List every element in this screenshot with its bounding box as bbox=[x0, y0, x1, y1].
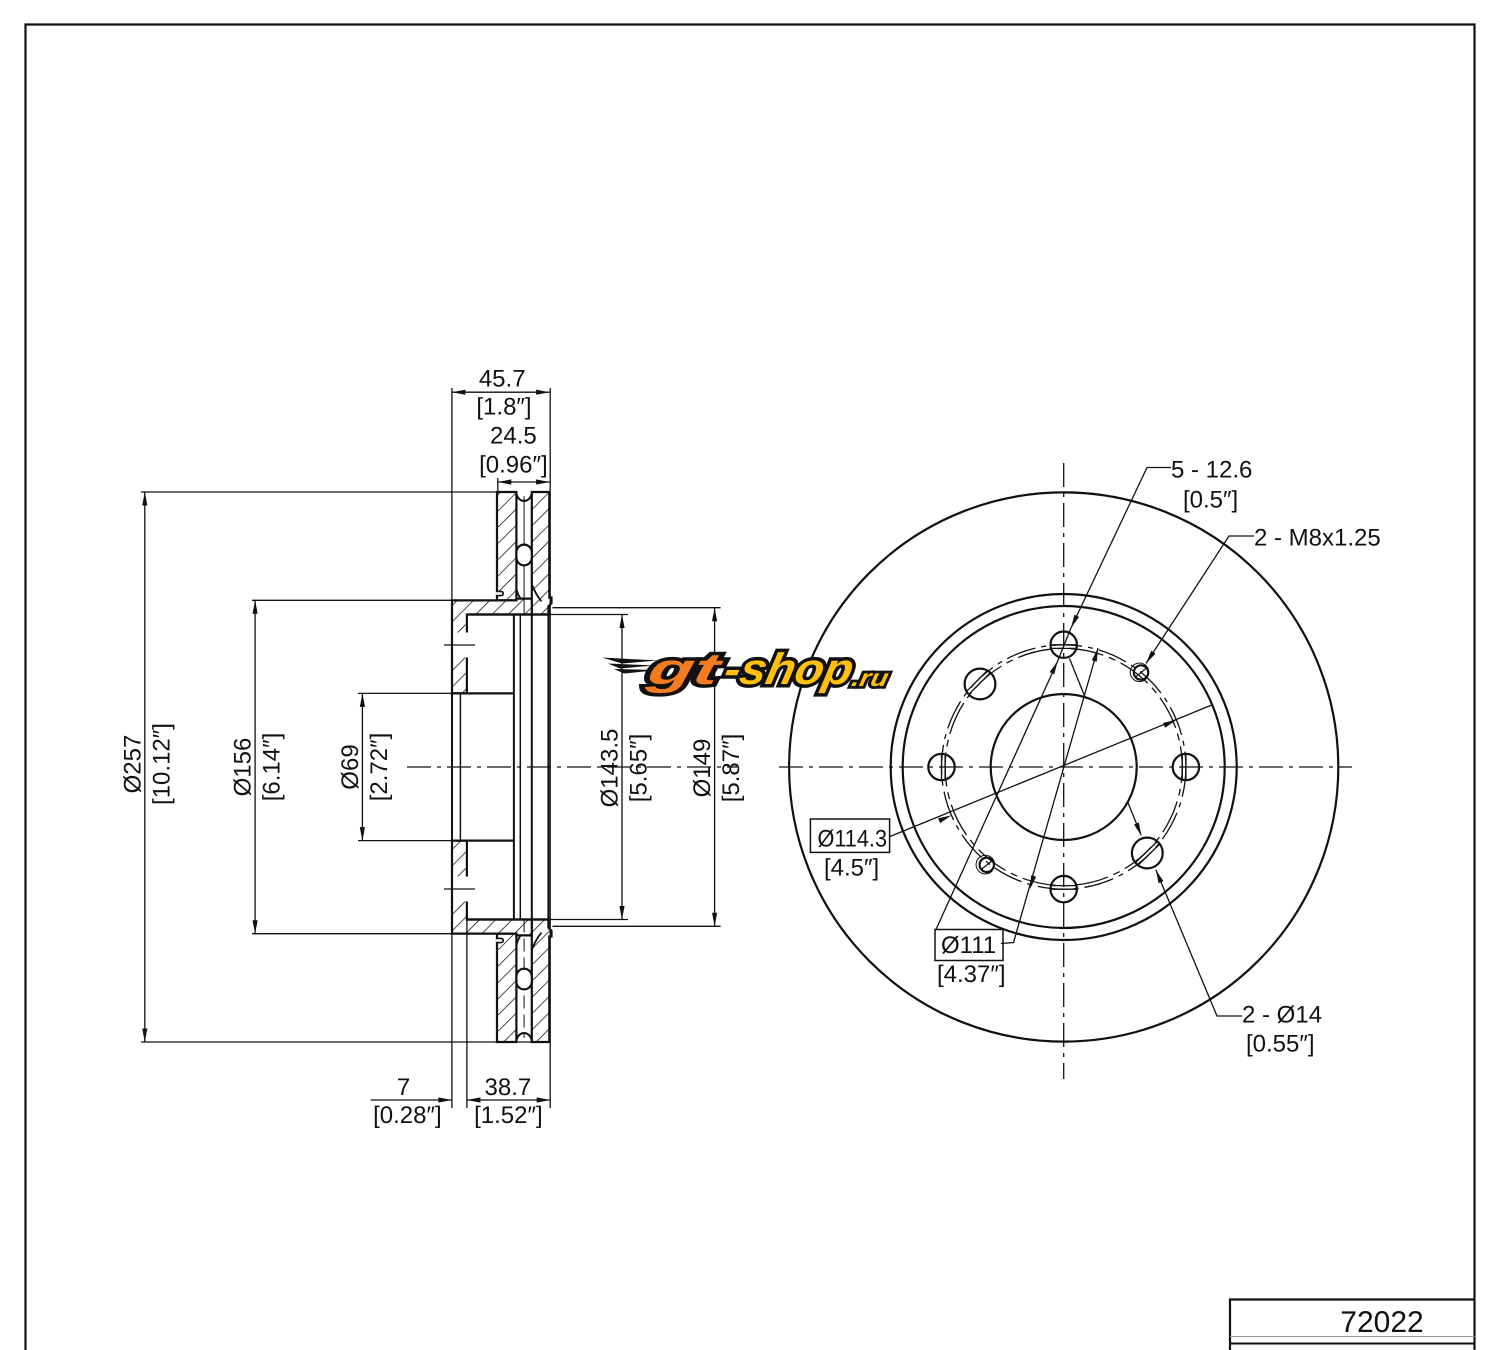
bolt circle chords in bottom lug hole bbox=[1052, 885, 1076, 887]
leader line through top hole bbox=[1058, 628, 1071, 661]
svg-text:[0.5″]: [0.5″] bbox=[1183, 487, 1238, 514]
svg-text:[10.12″]: [10.12″] bbox=[148, 723, 175, 805]
front view centerline horizontal bbox=[779, 766, 1352, 768]
line top hole to D14 hole bbox=[1070, 659, 1086, 698]
svg-text:[1.52″]: [1.52″] bbox=[474, 1102, 543, 1129]
hat inside face line bbox=[513, 615, 515, 920]
dim D114.3 diagonal line bbox=[890, 705, 1213, 837]
svg-text:gt: gt bbox=[642, 645, 728, 694]
svg-text:24.5: 24.5 bbox=[490, 423, 537, 450]
svg-text:38.7: 38.7 bbox=[485, 1074, 532, 1101]
hat outer circle bbox=[903, 606, 1225, 928]
svg-text:Ø69: Ø69 bbox=[337, 744, 364, 789]
dim 7 line bbox=[371, 1099, 452, 1101]
hat inner edge bottom bbox=[467, 918, 551, 920]
title block bbox=[1230, 1300, 1475, 1350]
front view centerline vertical bbox=[1063, 463, 1065, 1079]
dim 24.5 line bbox=[498, 481, 550, 483]
section hat wall and flange top bbox=[452, 599, 532, 694]
dim 38.7 line bbox=[467, 1099, 550, 1101]
svg-text:Ø114.3: Ø114.3 bbox=[818, 826, 888, 853]
vent pillar bottom (stadium) bbox=[516, 969, 531, 990]
svg-text:45.7: 45.7 bbox=[479, 366, 526, 393]
vent slot rounded end top bbox=[516, 494, 531, 502]
section left(inner) plate bottom bbox=[497, 934, 516, 1042]
svg-text:-shop: -shop bbox=[720, 645, 858, 694]
dim D111 steep line bbox=[1001, 648, 1098, 944]
section left(inner) plate top bbox=[497, 492, 516, 600]
svg-text:[2.72″]: [2.72″] bbox=[366, 733, 393, 802]
hole M8 lower-left bbox=[980, 858, 994, 872]
dim D143.5 line bbox=[621, 615, 623, 920]
dim 7 extension line bbox=[466, 920, 468, 1109]
svg-text:[0.55″]: [0.55″] bbox=[1246, 1031, 1315, 1058]
flange bolt hole top (section) bbox=[453, 633, 468, 658]
flange bolt hole bottom (section) bbox=[453, 877, 468, 902]
inner plate root notch top bbox=[496, 591, 503, 595]
vent pillar top (stadium) bbox=[516, 545, 531, 566]
hole D14 lower-right bbox=[1132, 838, 1163, 869]
svg-text:7: 7 bbox=[397, 1074, 410, 1101]
svg-text:2 - Ø14: 2 - Ø14 bbox=[1242, 1002, 1322, 1029]
dim D69 line bbox=[361, 693, 363, 840]
svg-text:72022: 72022 bbox=[1340, 1306, 1423, 1339]
disc outer circle bbox=[789, 492, 1338, 1041]
dim D257 extension lines bbox=[141, 491, 497, 493]
lug hole right 12.6 bbox=[1173, 754, 1199, 780]
dim D257 line bbox=[144, 492, 146, 1042]
vent channel center line bottom bbox=[523, 920, 525, 1039]
svg-text:[0.96″]: [0.96″] bbox=[479, 452, 548, 479]
dim D143.5 extension lines bbox=[551, 614, 628, 616]
dim 45.7 extension lines bbox=[451, 388, 453, 1108]
dim D69 extension lines bbox=[358, 692, 460, 694]
svg-text:[4.37″]: [4.37″] bbox=[937, 961, 1006, 988]
svg-text:Ø156: Ø156 bbox=[230, 738, 257, 797]
bolt circle D111 dashed bbox=[945, 648, 1182, 885]
braking band inner circle bbox=[891, 594, 1237, 940]
label D111 box bbox=[935, 930, 1003, 961]
bolt circle D114.3 dash-dot bbox=[941, 645, 1185, 889]
bolt circle chord in M8 hole lower-left bbox=[982, 860, 993, 869]
dim 45.7 line bbox=[452, 391, 550, 393]
section right(outer) plate bottom bbox=[532, 920, 552, 1043]
svg-text:.ru: .ru bbox=[849, 665, 891, 692]
dim D156 line bbox=[254, 600, 256, 933]
svg-text:Ø111: Ø111 bbox=[941, 932, 996, 959]
plate-to-hat fillet lines bottom bbox=[516, 936, 520, 947]
hub bore circle bbox=[991, 694, 1137, 840]
svg-text:[1.8″]: [1.8″] bbox=[476, 394, 531, 421]
dim D156 extension lines bbox=[252, 599, 452, 601]
section hat wall and flange bottom bbox=[452, 841, 532, 936]
vent far wall line b bbox=[531, 615, 533, 920]
hole M8 upper-right bbox=[1134, 665, 1148, 679]
vent slot rounded end bottom bbox=[516, 1033, 531, 1041]
bolt circle chords in right lug hole bbox=[1185, 755, 1187, 780]
dim 24.5 extension line bbox=[497, 478, 499, 492]
leader 2-M8x1.25 bbox=[1146, 536, 1254, 664]
leader line continuation to D111 box bbox=[936, 661, 1058, 930]
bolt circle chords in top lug hole bbox=[1052, 644, 1077, 646]
svg-text:[5.65″]: [5.65″] bbox=[626, 734, 653, 803]
leader 5-12.6 bbox=[1071, 468, 1171, 629]
svg-text:Ø149: Ø149 bbox=[689, 739, 716, 798]
svg-text:[5.87″]: [5.87″] bbox=[718, 734, 745, 803]
bolt circle chord in M8 hole upper-right bbox=[1136, 668, 1147, 677]
plate-to-hat fillet lines top bbox=[516, 588, 520, 599]
bolt circle chords in D14 hole upper-left bbox=[966, 670, 987, 691]
svg-text:[6.14″]: [6.14″] bbox=[259, 733, 286, 802]
bolt circle chords in D14 hole lower-right bbox=[1138, 844, 1160, 865]
section right(outer) plate top bbox=[532, 492, 552, 615]
svg-text:[4.5″]: [4.5″] bbox=[824, 855, 879, 882]
disc inner face far line bbox=[547, 615, 549, 920]
lug hole top 12.6 bbox=[1051, 632, 1077, 658]
svg-text:2 - M8x1.25: 2 - M8x1.25 bbox=[1254, 525, 1381, 552]
inner plate root notch bottom bbox=[496, 938, 503, 942]
vent channel center line top bbox=[523, 496, 525, 615]
svg-text:Ø257: Ø257 bbox=[119, 735, 146, 794]
label D114.3 box bbox=[810, 819, 889, 852]
hat inner edge top bbox=[467, 613, 551, 615]
leader 2-D14 bbox=[1156, 870, 1242, 1016]
hub bore chamfer edge bbox=[459, 693, 461, 840]
hub bore wall top bbox=[452, 692, 514, 694]
left view centerline bbox=[407, 766, 737, 768]
hole D14 upper-left bbox=[965, 669, 996, 700]
svg-text:[0.28″]: [0.28″] bbox=[373, 1102, 442, 1129]
dim D149 line bbox=[714, 608, 716, 927]
lug hole bottom 12.6 bbox=[1051, 876, 1077, 902]
lug hole left 12.6 bbox=[928, 754, 954, 780]
dim D149 extension lines bbox=[553, 607, 721, 609]
svg-text:Ø143.5: Ø143.5 bbox=[597, 729, 624, 808]
watermark logo gt-shop.ru bbox=[602, 658, 660, 674]
hub bore wall bottom bbox=[452, 839, 514, 841]
vent far wall line a bbox=[519, 615, 521, 920]
flange face through bore bbox=[451, 693, 453, 840]
bolt circle chords in left lug hole bbox=[941, 755, 943, 780]
svg-text:5 - 12.6: 5 - 12.6 bbox=[1171, 457, 1252, 484]
